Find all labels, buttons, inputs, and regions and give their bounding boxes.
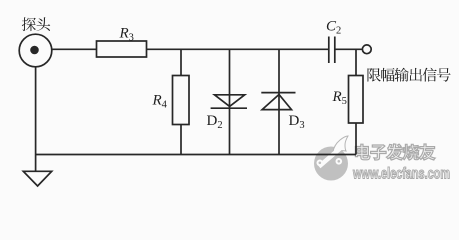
wire C2 to output terminal: [335, 48, 363, 50]
wire connector to ground: [35, 67, 37, 172]
diode D2 (anode top): [211, 49, 247, 154]
resistor R5: [349, 76, 364, 124]
wire R5 to bottom bus: [355, 123, 357, 155]
watermark text 电子发烧友: [355, 144, 435, 160]
wire R3 to C2: [147, 48, 329, 50]
connector J1 probe input: [19, 34, 52, 67]
resistor R4: [173, 76, 190, 125]
output terminal: [362, 45, 371, 54]
svg-text:www.elecfans.com: www.elecfans.com: [352, 166, 450, 183]
wire branch to R4: [180, 49, 182, 76]
wire input to R3: [52, 48, 97, 50]
capacitor C2: [329, 37, 335, 64]
resistor R3: [97, 41, 147, 57]
ground symbol: [23, 171, 51, 186]
wire R4 to bottom bus: [180, 125, 182, 155]
wire branch to R5: [355, 49, 357, 75]
wire bottom bus: [35, 154, 356, 156]
label 限幅输出信号: [368, 68, 451, 82]
diode D3 (cathode top): [261, 49, 295, 154]
watermark logo (elecfans): [314, 136, 348, 181]
label 探头: [22, 17, 50, 31]
